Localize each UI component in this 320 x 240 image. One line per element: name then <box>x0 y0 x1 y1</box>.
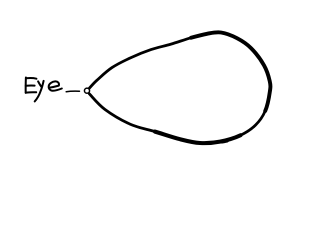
stroke-overlap jog at bottom right <box>222 141 228 142</box>
label Eye : letter e <box>49 81 62 90</box>
outline thick overlay: bottom arc <box>155 132 240 144</box>
eye outline (teardrop shape) <box>89 32 270 143</box>
label Eye : letter E <box>26 78 37 93</box>
label Eye : letter y <box>35 81 44 102</box>
outline thick overlay: top-right arc <box>191 32 270 111</box>
leader dash <box>66 90 79 93</box>
apex node circle <box>84 88 89 93</box>
